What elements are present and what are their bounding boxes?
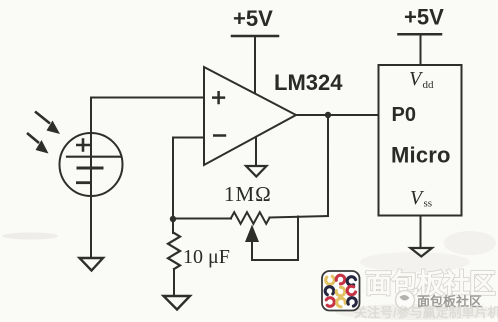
svg-text:+5V: +5V <box>233 6 273 31</box>
svg-text:1MΩ: 1MΩ <box>224 182 272 206</box>
svg-text:dd: dd <box>423 79 435 91</box>
svg-text:关注号/参与赢定制单片机: 关注号/参与赢定制单片机 <box>354 305 498 320</box>
svg-text:LM324: LM324 <box>274 70 343 95</box>
svg-text:+5V: +5V <box>404 5 444 30</box>
svg-text:P0: P0 <box>392 104 416 126</box>
svg-text:Micro: Micro <box>391 143 451 168</box>
svg-text:10 μF: 10 μF <box>183 246 230 268</box>
svg-text:ss: ss <box>424 198 433 210</box>
